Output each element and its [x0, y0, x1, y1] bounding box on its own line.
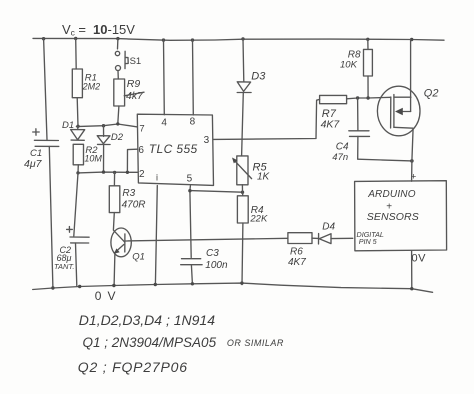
resistor R1 2M2 [75, 39, 78, 70]
svg-text:C4: C4 [336, 141, 349, 152]
label notes line 1 [79, 312, 215, 328]
svg-text:2: 2 [139, 169, 145, 180]
resistor R6 4K7 [288, 233, 312, 244]
svg-text:S1: S1 [130, 56, 142, 67]
label 0V bottom left [95, 289, 122, 303]
diode D1 [62, 120, 74, 131]
wire node row B (R2/D2/C2/R3/pin6/pin2) [78, 171, 137, 174]
svg-text:4μ7: 4μ7 [24, 158, 43, 170]
wire 555 pin 1 to ground [155, 186, 157, 285]
svg-text:4K7: 4K7 [321, 119, 341, 131]
svg-text:SENSORS: SENSORS [367, 211, 419, 223]
switch S1 [117, 39, 119, 49]
wire ground rail [33, 283, 433, 292]
svg-text:PIN 5: PIN 5 [359, 237, 378, 246]
wire 555 pin 3 to R7 [214, 99, 320, 139]
capacitor C1 4u7 [34, 140, 58, 146]
svg-text:4k7: 4k7 [126, 90, 144, 102]
svg-text:TANT.: TANT. [54, 262, 74, 271]
svg-text:Q1 ; 2N3904/MPSA05: Q1 ; 2N3904/MPSA05 [83, 335, 217, 350]
capacitor C2 68u tant [74, 173, 78, 236]
resistor R8 10K [367, 39, 369, 49]
diode D3 [251, 71, 266, 83]
wire top supply rail [33, 38, 444, 40]
diode D4 [322, 221, 335, 232]
svg-text:5: 5 [187, 174, 193, 185]
svg-text:7: 7 [139, 124, 144, 135]
transistor Q1 [111, 228, 131, 257]
block Arduino + sensors [355, 181, 447, 251]
wire Q1 base to R6 [125, 238, 288, 241]
resistor R5 1K (variable) [237, 156, 248, 185]
svg-text:C3: C3 [206, 248, 219, 259]
svg-text:47n: 47n [332, 152, 348, 163]
resistor R3 470R [113, 172, 115, 185]
svg-text:6: 6 [138, 145, 144, 156]
svg-text:R3: R3 [122, 188, 135, 199]
resistor R2 10M [73, 144, 83, 165]
wire arduino 0V to ground rail [411, 251, 413, 289]
svg-text:4K7: 4K7 [288, 257, 306, 268]
svg-text:1K: 1K [257, 172, 271, 183]
node top rail junction dots [42, 37, 414, 42]
transistor Q2 (P-MOSFET) [377, 86, 420, 136]
svg-text:470R: 470R [122, 200, 146, 211]
svg-text:2M2: 2M2 [82, 82, 101, 92]
svg-text:D2: D2 [111, 132, 124, 143]
label notes line 2 [83, 335, 284, 350]
svg-text:10M: 10M [84, 154, 102, 164]
label notes line 3 [78, 359, 188, 375]
wire 555 pin 5 / C3 / R5-R4 junction [190, 186, 191, 258]
svg-text:D4: D4 [322, 221, 335, 232]
wire gate row R7/C4/R8 to Q2 gate [347, 97, 391, 99]
svg-text:0V: 0V [95, 289, 122, 303]
svg-text:Q1: Q1 [132, 252, 145, 263]
wire 555 pin 8 to rail [192, 40, 195, 115]
capacitor C4 47n [357, 98, 359, 130]
label 0V at arduino [412, 253, 427, 265]
svg-text:3: 3 [204, 135, 210, 146]
resistor R7 4K7 [320, 95, 347, 103]
svg-text:0V: 0V [412, 253, 427, 265]
diode D2 [111, 132, 124, 143]
capacitor C3 100n [181, 259, 202, 265]
svg-text:10K: 10K [340, 60, 358, 71]
svg-text:ARDUINO: ARDUINO [367, 189, 416, 200]
svg-text:Q2: Q2 [424, 87, 439, 99]
op-amp / timer U1 TLC555 box [137, 114, 213, 185]
svg-text:D3: D3 [251, 71, 266, 83]
wire C1 branch from rail [44, 39, 47, 140]
svg-text:100n: 100n [205, 260, 228, 271]
label Vc = 10-15V [62, 22, 135, 38]
node ground junction dots [51, 281, 413, 290]
svg-text:Q2 ; FQP27P06: Q2 ; FQP27P06 [78, 359, 188, 375]
svg-text:i: i [156, 173, 158, 183]
resistor R4 22K [242, 192, 244, 196]
wire 555 pin 4 to rail [163, 40, 166, 115]
wire node row A (R1/D1/D2/R9/pin7) [76, 124, 137, 127]
svg-text:4: 4 [161, 118, 167, 129]
resistor R9 4k7 (value struck out) [114, 79, 125, 106]
svg-text:D1,D2,D3,D4 ; 1N914: D1,D2,D3,D4 ; 1N914 [79, 312, 215, 328]
svg-text:R9: R9 [127, 78, 141, 90]
svg-text:22K: 22K [249, 214, 268, 225]
svg-text:TLC 555: TLC 555 [149, 142, 198, 156]
svg-text:8: 8 [190, 117, 196, 128]
svg-text:OR SIMILAR: OR SIMILAR [227, 338, 284, 348]
